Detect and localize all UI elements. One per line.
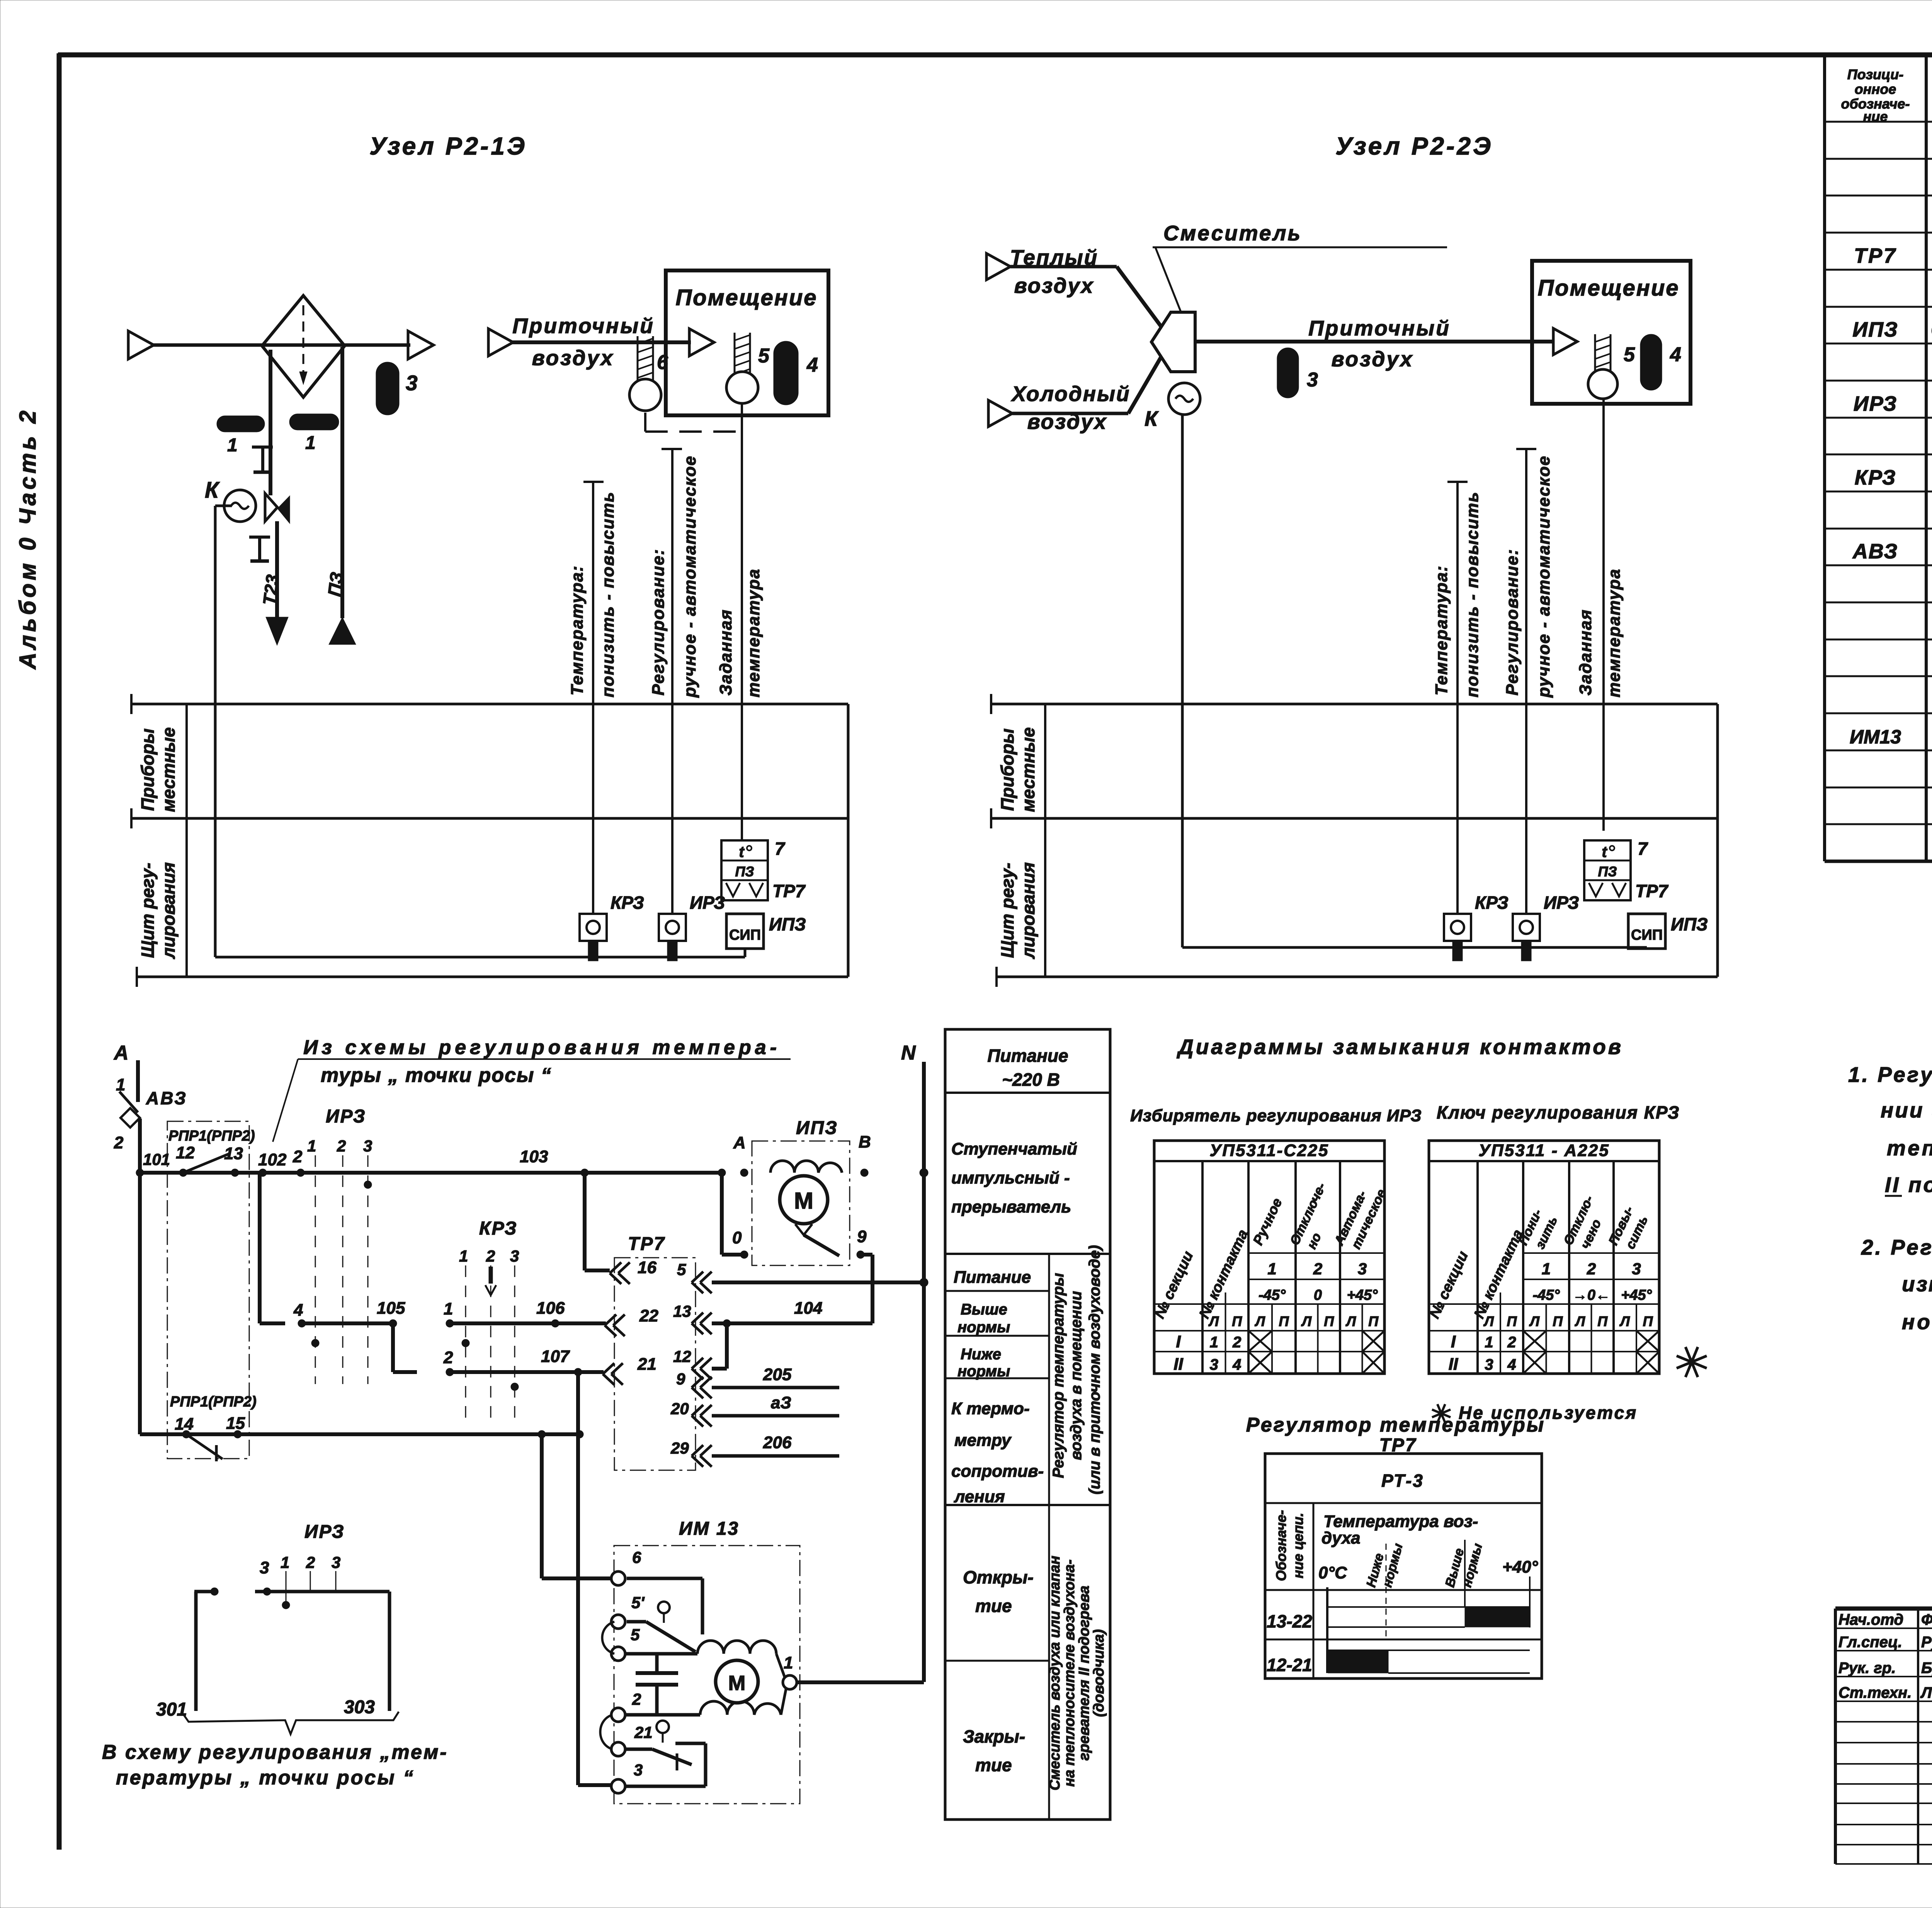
svg-text:3: 3 [363,1137,372,1155]
svg-text:П: П [1507,1313,1517,1329]
svg-text:Рубчинский: Рубчинский [1921,1634,1932,1651]
svg-text:температура: температура [1605,568,1624,697]
svg-text:Щит регу-: Щит регу- [138,863,158,958]
svg-text:духа: духа [1321,1529,1361,1547]
svg-text:I: I [1176,1332,1181,1351]
svg-text:Диаграммы замыкания контакто: Диаграммы замыкания контактов [1177,1035,1623,1059]
svg-text:гревателя II подогрева: гревателя II подогрева [1076,1586,1092,1761]
svg-text:t: t [1602,843,1607,860]
svg-text:Температура:: Температура: [568,565,587,696]
svg-text:П: П [1324,1313,1334,1329]
svg-text:7: 7 [1638,838,1648,859]
svg-text:РПР1(РПР2): РПР1(РПР2) [170,1394,257,1410]
svg-text:К: К [205,478,220,503]
svg-text:Л: Л [1529,1313,1540,1329]
svg-text:102: 102 [258,1150,287,1169]
svg-text:АВЗ: АВЗ [146,1088,187,1108]
svg-text:Температура воз-: Температура воз- [1323,1512,1478,1531]
svg-text:КРЗ: КРЗ [1855,466,1896,489]
svg-text:5: 5 [631,1626,640,1644]
svg-text:9: 9 [676,1370,685,1388]
svg-text:метру: метру [954,1431,1012,1450]
svg-text:(доводчика): (доводчика) [1091,1629,1107,1717]
svg-text:12: 12 [673,1347,691,1366]
svg-text:местные: местные [1018,727,1038,812]
svg-text:Избирятель регулирования ИРЗ: Избирятель регулирования ИРЗ [1130,1106,1422,1125]
svg-text:Л: Л [1208,1313,1219,1329]
svg-text:РПР1(РПР2): РПР1(РПР2) [168,1128,255,1144]
svg-text:нии (или в приточном: нии (или в приточном воздуховоде) измене… [1881,1098,1932,1122]
svg-text:103: 103 [520,1147,548,1166]
svg-text:Ключ регулирования КРЗ: Ключ регулирования КРЗ [1437,1102,1680,1122]
svg-text:II подогрева (доводчика): II подогрева (доводчика) (узел Р2-1Э). [1885,1173,1932,1197]
svg-text:2: 2 [306,1553,315,1571]
svg-text:4: 4 [1232,1356,1241,1373]
svg-text:1: 1 [1542,1260,1551,1278]
svg-text:Выше: Выше [961,1301,1007,1318]
svg-text:ручное - автоматическое: ручное - автоматическое [680,455,699,698]
svg-text:20: 20 [670,1400,689,1418]
svg-text:онное: онное [1855,81,1896,97]
svg-text:1: 1 [305,433,316,453]
svg-text:Регулятор температуры: Регулятор температуры [1050,1273,1067,1478]
svg-text:ТР7: ТР7 [1854,244,1897,267]
svg-text:2: 2 [486,1247,495,1265]
svg-text:1: 1 [1485,1334,1493,1351]
svg-text:Альбом 0 Часть 2: Альбом 0 Часть 2 [15,408,41,670]
svg-text:П: П [1643,1313,1653,1329]
svg-text:303: 303 [344,1697,375,1718]
svg-text:~220 В: ~220 В [1002,1070,1060,1090]
svg-text:+45°: +45° [1347,1287,1378,1303]
svg-text:1: 1 [784,1653,793,1672]
svg-text:воздух: воздух [532,346,614,370]
svg-text:Заданная: Заданная [1576,609,1595,696]
svg-text:Ступенчатый: Ступенчатый [951,1139,1077,1158]
svg-text:-45°: -45° [1259,1287,1286,1303]
svg-text:9: 9 [857,1227,867,1246]
svg-text:→0←: →0← [1573,1287,1610,1303]
svg-text:ления: ления [954,1487,1005,1506]
svg-text:Рук. гр.: Рук. гр. [1838,1660,1896,1677]
svg-text:Л: Л [1483,1313,1494,1329]
svg-text:1: 1 [307,1137,316,1155]
svg-text:29: 29 [670,1439,689,1457]
svg-text:теплопроизводительности: теплопроизводительности воздухонагревате… [1887,1136,1932,1160]
svg-text:нормы: нормы [957,1363,1010,1380]
svg-text:ПЗ: ПЗ [735,864,754,879]
svg-text:3: 3 [332,1553,340,1571]
svg-text:ИРЗ: ИРЗ [304,1522,345,1542]
svg-text:П: П [1368,1313,1379,1329]
svg-text:пературы „ точки росы “: пературы „ точки росы “ [116,1767,415,1789]
svg-text:6: 6 [632,1548,641,1566]
svg-text:Л: Л [1254,1313,1265,1329]
svg-text:температура: температура [744,568,763,697]
svg-text:ИРЗ: ИРЗ [690,893,725,913]
svg-text:101: 101 [143,1150,170,1168]
svg-text:К термо-: К термо- [951,1399,1030,1418]
svg-text:ИРЗ: ИРЗ [1544,893,1579,913]
svg-text:Нач.отд: Нач.отд [1838,1611,1903,1628]
svg-text:2: 2 [1507,1334,1516,1351]
svg-text:Заданная: Заданная [716,609,735,696]
svg-text:тие: тие [975,1755,1012,1775]
svg-text:205: 205 [763,1365,792,1384]
svg-text:А: А [113,1042,129,1064]
svg-text:3: 3 [1307,369,1318,391]
svg-text:13: 13 [673,1302,691,1320]
svg-text:1: 1 [1210,1334,1218,1351]
svg-text:ИПЗ: ИПЗ [796,1118,838,1138]
svg-text:3: 3 [1632,1260,1641,1278]
svg-text:ние: ние [1863,109,1888,124]
svg-text:ручное - автоматическое: ручное - автоматическое [1534,455,1553,698]
svg-text:К: К [1145,406,1159,430]
svg-text:2: 2 [114,1133,124,1152]
svg-text:16: 16 [638,1258,656,1277]
svg-text:2: 2 [1587,1260,1596,1278]
svg-text:ИПЗ: ИПЗ [1852,318,1898,341]
svg-text:3: 3 [260,1558,269,1577]
svg-text:1: 1 [1267,1260,1276,1278]
svg-text:Обозначе-: Обозначе- [1273,1510,1289,1581]
svg-text:прерыватель: прерыватель [951,1197,1071,1216]
svg-text:12-21: 12-21 [1267,1655,1312,1675]
svg-text:П: П [1597,1313,1608,1329]
svg-text:ИПЗ: ИПЗ [769,914,806,934]
svg-text:t: t [739,843,745,860]
svg-text:II: II [1449,1355,1458,1374]
svg-text:Питание: Питание [987,1046,1068,1066]
svg-text:Бронштейн: Бронштейн [1921,1660,1932,1677]
svg-text:Ниже: Ниже [961,1346,1001,1363]
svg-text:Узел Р2-1Э: Узел Р2-1Э [369,132,527,160]
svg-text:I: I [1451,1332,1456,1351]
svg-text:2: 2 [1313,1260,1322,1278]
svg-text:0: 0 [732,1228,742,1247]
svg-text:ТР7: ТР7 [772,881,806,901]
svg-text:II: II [1173,1355,1183,1374]
svg-text:Приточный: Приточный [512,314,655,338]
svg-text:0: 0 [1314,1287,1322,1303]
svg-text:АВЗ: АВЗ [1852,540,1898,563]
svg-text:106: 106 [536,1299,565,1318]
svg-text:Питание: Питание [954,1268,1031,1287]
svg-text:13: 13 [224,1144,243,1163]
svg-text:1. Регулирование температ: 1. Регулирование температуры воздуха в п… [1848,1063,1932,1087]
svg-text:импульсный -: импульсный - [951,1168,1070,1187]
svg-text:21: 21 [637,1355,656,1374]
svg-text:2: 2 [1232,1334,1241,1351]
svg-text:107: 107 [541,1347,570,1366]
svg-text:104: 104 [794,1299,822,1318]
svg-text:Лисикина: Лисикина [1920,1684,1932,1701]
svg-text:3: 3 [510,1247,519,1265]
svg-text:воздух: воздух [1332,347,1414,371]
svg-text:Холодный: Холодный [1010,382,1130,406]
svg-text:5: 5 [1624,344,1635,366]
svg-text:0°С: 0°С [1318,1563,1347,1582]
svg-text:лирования: лирования [1018,862,1038,959]
svg-text:туры „ точки росы “: туры „ точки росы “ [321,1064,552,1087]
svg-text:1: 1 [227,435,238,456]
svg-text:Приборы: Приборы [997,728,1017,811]
svg-text:6: 6 [657,351,668,374]
svg-text:Приборы: Приборы [138,728,158,811]
svg-text:ИМ13: ИМ13 [1850,726,1901,748]
svg-text:3: 3 [1485,1356,1493,1373]
svg-text:ПЗ: ПЗ [324,571,347,598]
svg-text:Гл.спец.: Гл.спец. [1838,1634,1902,1651]
svg-text:Смеситель: Смеситель [1163,221,1302,245]
svg-text:СИП: СИП [1631,927,1663,943]
svg-text:воздуха в помещении: воздуха в помещении [1068,1291,1085,1460]
svg-text:Фингер: Фингер [1921,1611,1932,1628]
svg-text:Т23: Т23 [259,573,282,606]
svg-text:УП5311-С225: УП5311-С225 [1210,1141,1329,1160]
svg-text:Л: Л [1574,1313,1585,1329]
svg-text:1: 1 [281,1553,289,1571]
svg-text:КРЗ: КРЗ [479,1218,518,1239]
svg-text:ИРЗ: ИРЗ [1854,392,1898,415]
svg-text:3: 3 [1358,1260,1367,1278]
svg-text:ИРЗ: ИРЗ [326,1106,366,1127]
svg-text:М: М [728,1672,746,1695]
svg-text:3: 3 [634,1761,643,1779]
svg-text:А: А [733,1133,746,1152]
svg-text:ПЗ: ПЗ [1598,864,1617,879]
svg-text:ного воздуха в смесителе: ного воздуха в смесителе (узел Р2-2Э) [1902,1310,1932,1334]
svg-text:1: 1 [459,1247,468,1265]
svg-text:14: 14 [175,1415,194,1434]
svg-text:Помещение: Помещение [1537,275,1679,301]
svg-text:П: П [1232,1313,1242,1329]
svg-text:ние цепи.: ние цепи. [1290,1513,1306,1578]
svg-text:П: П [1279,1313,1289,1329]
svg-text:нормы: нормы [957,1319,1010,1336]
svg-text:2. Регулирование темпера: 2. Регулирование температуры воздуха в п… [1861,1235,1932,1259]
svg-text:4: 4 [1670,344,1681,366]
svg-text:воздух: воздух [1014,274,1094,298]
svg-text:местные: местные [158,727,179,812]
svg-text:2: 2 [293,1147,303,1166]
svg-text:РТ-3: РТ-3 [1381,1471,1424,1491]
svg-text:Ст.техн.: Ст.техн. [1838,1684,1912,1701]
svg-text:ИМ 13: ИМ 13 [679,1519,739,1539]
svg-text:тие: тие [975,1596,1012,1616]
svg-text:2: 2 [632,1690,641,1708]
svg-text:КРЗ: КРЗ [1475,893,1509,913]
svg-text:Регулятор температуры: Регулятор температуры [1246,1414,1545,1436]
svg-text:Позици-: Позици- [1847,66,1903,82]
svg-text:ИПЗ: ИПЗ [1671,914,1708,934]
svg-text:на теплоносителе воздухона-: на теплоносителе воздухона- [1061,1559,1078,1787]
svg-text:22: 22 [639,1306,658,1325]
svg-text:7: 7 [775,838,786,859]
svg-text:Смеситель воздуха или клапан: Смеситель воздуха или клапан [1047,1556,1063,1791]
svg-text:понизить - повысить: понизить - повысить [1463,491,1482,697]
svg-text:15: 15 [226,1414,245,1433]
svg-text:понизить - повысить: понизить - повысить [599,491,617,697]
svg-text:2: 2 [443,1348,453,1367]
svg-text:105: 105 [377,1299,405,1318]
svg-text:аЗ: аЗ [771,1393,791,1412]
svg-text:21: 21 [634,1723,653,1741]
svg-text:Узел Р2-2Э: Узел Р2-2Э [1335,132,1493,160]
svg-text:2: 2 [337,1137,346,1155]
svg-text:5: 5 [758,345,770,367]
svg-text:СИП: СИП [729,927,761,943]
svg-text:13-22: 13-22 [1267,1611,1312,1631]
svg-text:+45°: +45° [1621,1287,1652,1303]
svg-text:ТР7: ТР7 [628,1234,665,1254]
svg-text:лирования: лирования [158,862,179,959]
svg-text:сопротив-: сопротив- [951,1462,1044,1481]
svg-text:М: М [794,1188,813,1214]
svg-text:Регулирование:: Регулирование: [649,549,668,696]
svg-text:4: 4 [293,1301,303,1320]
svg-text:Л: Л [1345,1313,1356,1329]
svg-text:Закры-: Закры- [963,1726,1025,1746]
svg-text:+40°: +40° [1502,1558,1538,1576]
svg-text:КРЗ: КРЗ [611,893,644,913]
svg-text:Помещение: Помещение [675,285,817,310]
svg-text:12: 12 [176,1143,195,1162]
svg-text:изменением соотношения: изменением соотношения расходов теплого … [1902,1272,1932,1296]
svg-text:Из схемы регулирования т: Из схемы регулирования темпера- [303,1036,781,1059]
svg-text:(или в приточном воздуховоде): (или в приточном воздуховоде) [1086,1245,1103,1494]
svg-text:4: 4 [806,354,818,376]
svg-text:1: 1 [444,1299,453,1318]
svg-text:В: В [859,1133,871,1151]
svg-text:Л: Л [1619,1313,1630,1329]
svg-text:5': 5' [631,1593,645,1612]
svg-text:N: N [901,1042,916,1064]
svg-text:Щит регу-: Щит регу- [997,863,1017,958]
svg-text:Откры-: Откры- [963,1567,1034,1587]
svg-text:3: 3 [1210,1356,1218,1373]
svg-text:5: 5 [677,1260,686,1279]
svg-text:ТР7: ТР7 [1635,881,1669,901]
svg-text:П: П [1553,1313,1563,1329]
svg-text:3: 3 [406,371,418,395]
svg-text:206: 206 [763,1433,792,1452]
svg-text:Л: Л [1301,1313,1312,1329]
svg-text:4: 4 [1507,1356,1516,1373]
svg-text:В схему регулирования „тем-: В схему регулирования „тем- [102,1741,448,1763]
svg-text:УП5311 - А225: УП5311 - А225 [1478,1141,1609,1160]
svg-text:-45°: -45° [1532,1287,1560,1303]
svg-text:Температура:: Температура: [1432,565,1451,696]
svg-text:301: 301 [156,1699,187,1720]
svg-text:Приточный: Приточный [1308,316,1451,340]
svg-text:Регулирование:: Регулирование: [1503,549,1522,696]
